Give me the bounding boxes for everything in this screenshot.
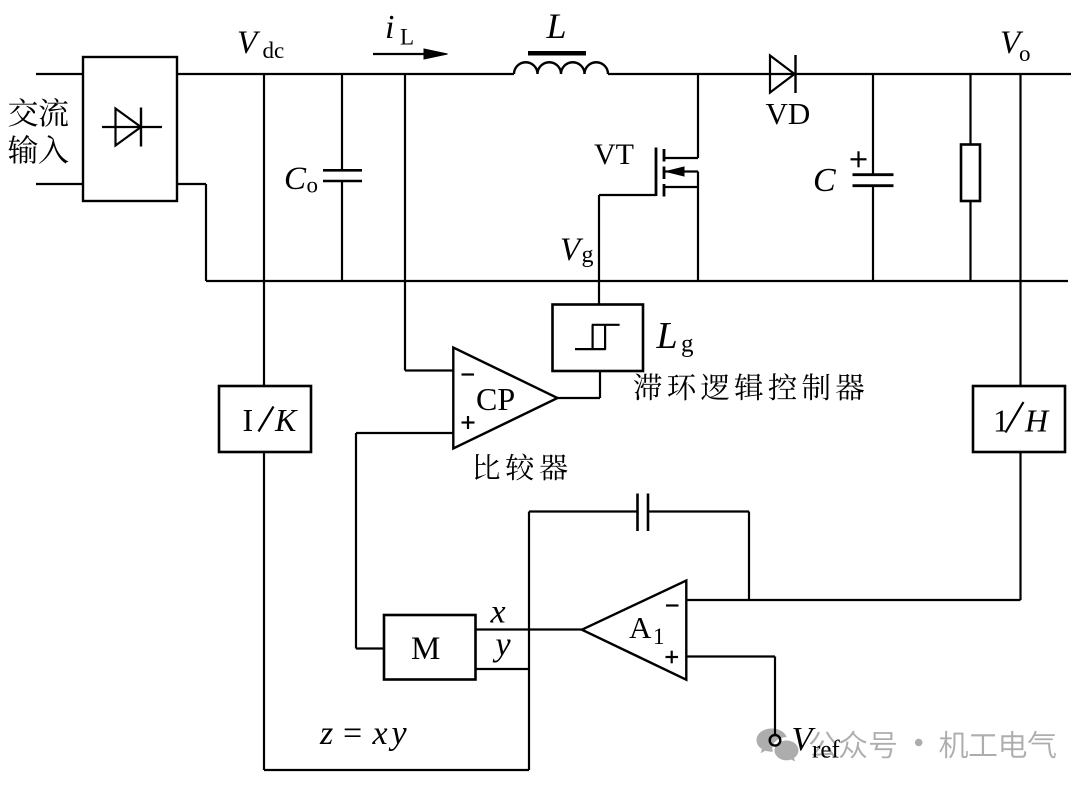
svg-text:y: y: [493, 627, 512, 664]
svg-text:i: i: [385, 9, 394, 46]
svg-text:g: g: [582, 242, 594, 268]
svg-text:=: =: [343, 715, 362, 752]
svg-text:L: L: [400, 25, 414, 50]
svg-text:CP: CP: [476, 381, 515, 417]
svg-text:x: x: [490, 594, 506, 631]
svg-text:M: M: [411, 631, 440, 667]
svg-text:y: y: [389, 715, 408, 752]
svg-text:ref: ref: [812, 737, 840, 764]
svg-text:o: o: [1019, 41, 1031, 66]
svg-text:K: K: [274, 402, 298, 438]
svg-text:VD: VD: [766, 96, 811, 131]
svg-text:1: 1: [653, 624, 665, 649]
svg-text:I: I: [243, 402, 254, 438]
svg-text:o: o: [307, 173, 319, 198]
svg-text:C: C: [284, 161, 307, 197]
svg-text:z: z: [319, 715, 333, 752]
svg-text:L: L: [656, 315, 678, 357]
svg-text:L: L: [546, 6, 567, 46]
svg-text:x: x: [372, 715, 388, 752]
svg-text:A: A: [629, 610, 652, 645]
svg-text:1: 1: [993, 403, 1009, 439]
svg-text:g: g: [681, 331, 694, 358]
svg-text:dc: dc: [263, 38, 285, 63]
svg-text:VT: VT: [594, 138, 634, 171]
svg-text:H: H: [1024, 403, 1050, 439]
svg-text:C: C: [813, 162, 836, 199]
